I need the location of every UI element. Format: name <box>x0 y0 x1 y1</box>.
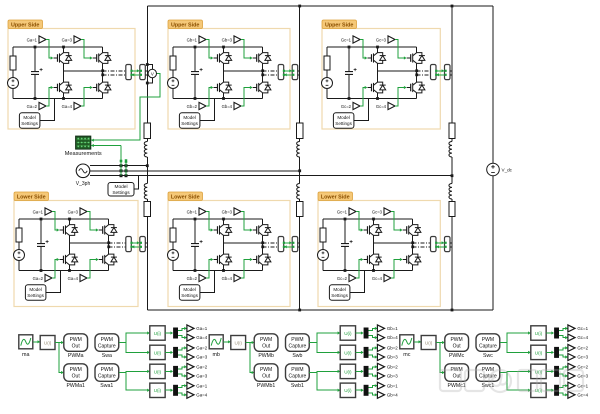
demux b3 <box>364 366 369 377</box>
svg-text:Gb=3: Gb=3 <box>222 37 233 42</box>
wire module mid rail <box>224 70 263 72</box>
transistor upper A T2 <box>54 87 58 89</box>
svg-text:Measurements: Measurements <box>65 151 102 157</box>
input port Gb=3 <box>234 208 241 215</box>
wire cap branch bottom <box>34 74 36 98</box>
svg-text:PWMa: PWMa <box>68 353 84 359</box>
wire Model Settings link <box>200 99 215 121</box>
wire cap branch top <box>348 47 350 72</box>
PWM Out block PWMa1 <box>64 364 88 382</box>
svg-text:Swb: Swb <box>292 353 302 359</box>
PWM Out block PWMb1 <box>254 364 278 382</box>
transistor lower B T1 <box>214 229 218 231</box>
Model Settings block lower B <box>179 285 200 301</box>
wire output 2 (dash-dot) <box>413 246 431 248</box>
wire V_dc bus lower segment <box>492 176 494 310</box>
output port Ga=3 <box>187 354 194 361</box>
svg-text:Upper Side: Upper Side <box>171 22 199 28</box>
svg-text:U(i): U(i) <box>344 350 352 355</box>
wire <box>12 70 14 78</box>
wire AC line phase c <box>90 175 452 177</box>
svg-text:U(i): U(i) <box>344 388 352 393</box>
input port Gb=4 <box>234 102 241 109</box>
wire output 2 (dash-dot) <box>263 74 279 76</box>
wire measurement tap 1 (green) <box>120 146 122 176</box>
wire <box>18 261 20 271</box>
wire port link 2 (green) <box>284 246 292 248</box>
transistor upper A T3 <box>93 57 97 59</box>
lookup block U[i] a0 <box>40 336 55 350</box>
wire module mid rail <box>374 242 413 244</box>
wire Model Settings link <box>200 271 215 293</box>
capacitor module upper C <box>345 72 353 75</box>
port block inner lower B <box>278 237 284 252</box>
input port Gb=1 <box>199 36 206 43</box>
svg-text:Gc=2: Gc=2 <box>341 104 352 109</box>
transistor upper C T3 <box>407 57 411 59</box>
wire port link 1 (green) <box>436 242 444 244</box>
resistor module upper A <box>10 56 16 70</box>
node bottom rail / phase c <box>451 309 454 312</box>
signal source mb <box>209 335 223 349</box>
wire output 1 (dash-dot) <box>263 242 279 244</box>
transistor lower C T2 <box>364 259 368 261</box>
svg-text:Gb=3: Gb=3 <box>387 374 398 379</box>
wire <box>356 389 364 391</box>
wire port link 1 (green) <box>284 242 292 244</box>
wire lower legs <box>69 243 71 254</box>
lookup block U[i] a4 <box>150 383 165 397</box>
wire gate 3 (green) <box>391 212 402 231</box>
wire AC line phase b <box>90 170 300 172</box>
wire gate 1 (green) <box>206 212 213 231</box>
wire leg verticals <box>63 47 65 53</box>
svg-text:Ga=1: Ga=1 <box>27 37 38 42</box>
transistor lower B T4 <box>253 259 257 261</box>
Model Settings block (global) <box>108 183 134 197</box>
wire V_dc bus upper segment <box>492 6 494 163</box>
voltage source module upper B <box>168 78 179 89</box>
wire module top rail <box>323 218 413 220</box>
transistor lower C T1 <box>364 229 368 231</box>
wire left branch <box>326 47 328 56</box>
port block inner upper A <box>126 65 132 80</box>
wire <box>356 370 364 372</box>
wire <box>356 332 364 334</box>
svg-text:Gb=3: Gb=3 <box>222 209 233 214</box>
wire leg verticals <box>373 219 375 225</box>
wire <box>322 242 324 250</box>
output port Gc=3 <box>568 354 575 361</box>
svg-text:PWMb1: PWMb1 <box>257 383 276 389</box>
svg-text:Capture: Capture <box>98 343 116 349</box>
wire capture 1 fanout <box>500 333 530 343</box>
svg-text:Ga=2: Ga=2 <box>27 104 38 109</box>
input port Gb=2 <box>199 274 206 281</box>
wire module bottom rail <box>327 98 417 100</box>
svg-text:Gc=2: Gc=2 <box>577 365 588 370</box>
transistor upper C T4 <box>407 87 411 89</box>
wire port link 1 (green) <box>131 242 139 244</box>
wire gate 1 (green) <box>360 40 367 59</box>
wire gate 4 (green) <box>241 88 252 107</box>
wire output 2 (dash-dot) <box>417 74 431 76</box>
transistor upper A T4 <box>93 87 97 89</box>
svg-text:Ga=3: Ga=3 <box>62 37 73 42</box>
demux c1 <box>554 328 559 339</box>
wire gate 3 (green) <box>241 212 252 231</box>
transistor lower A T4 <box>99 259 103 261</box>
wire phase a upper arm bus <box>146 6 148 123</box>
transistor lower A T1 <box>60 229 64 231</box>
Model Settings block upper C <box>333 113 354 129</box>
svg-text:Out: Out <box>72 373 81 379</box>
output port Gc=2 <box>568 344 575 351</box>
wire <box>299 199 301 202</box>
svg-text:Ga=1: Ga=1 <box>196 326 207 331</box>
voltage source module upper A <box>8 78 19 89</box>
wire output 2 (dash-dot) <box>263 246 279 248</box>
svg-text:Capture: Capture <box>98 373 116 379</box>
svg-text:Gc=2: Gc=2 <box>577 346 588 351</box>
wire to AC node c <box>451 157 453 184</box>
wire gate 1 (green) <box>356 212 363 231</box>
port pins (green) <box>283 242 285 244</box>
svg-text:Lower Side: Lower Side <box>17 194 46 200</box>
wire bottom DC rail <box>147 309 493 311</box>
svg-text:U(i): U(i) <box>344 331 352 336</box>
wire Model Settings link <box>134 176 139 190</box>
transistor upper B T1 <box>214 57 218 59</box>
wire module mid rail <box>378 70 417 72</box>
node bottom rail / phase b <box>298 309 301 312</box>
wire port link 2 (green) <box>131 246 139 248</box>
PWM Capture block Swc <box>476 334 500 352</box>
transistor upper B T4 <box>253 87 257 89</box>
svg-text:Lower Side: Lower Side <box>171 194 200 200</box>
input port Gb=2 <box>199 102 206 109</box>
svg-text:mc: mc <box>403 352 410 358</box>
wire left branch <box>18 219 20 228</box>
voltage source module lower C <box>318 250 329 261</box>
lookup block U[i] b0 <box>231 336 246 350</box>
lookup block U[i] b4 <box>340 383 355 397</box>
voltage source V_3ph <box>76 164 90 178</box>
PWM Capture block Swa1 <box>95 364 119 382</box>
node AC terminal phase c <box>451 174 454 177</box>
wire phase a lower arm bus <box>146 217 148 311</box>
wire port to bus stubs <box>450 242 452 244</box>
inductor upper arm phase c <box>449 142 452 158</box>
PWM Capture block Swb1 <box>286 364 310 382</box>
wire gate 3 (green) <box>81 40 92 59</box>
Model Settings block lower A <box>25 285 46 301</box>
svg-text:Swc: Swc <box>483 353 493 359</box>
wire gate 2 (green) <box>360 88 367 107</box>
output port Gc=3 <box>568 372 575 379</box>
wire output 2 (dash-dot) <box>109 246 126 248</box>
wire demux out 2 <box>559 355 567 357</box>
svg-text:ma: ma <box>22 352 30 358</box>
lookup block U[i] c2 <box>531 345 546 359</box>
wire module top rail <box>13 46 103 48</box>
lookup block U[i] b1 <box>340 326 355 340</box>
output port Gc=2 <box>568 363 575 370</box>
wire measurement tap 2 (green) <box>125 162 127 176</box>
resistor module lower C <box>320 228 326 242</box>
svg-text:Upper Side: Upper Side <box>11 22 39 28</box>
wire AC line phase a <box>90 165 147 167</box>
wire <box>165 370 172 372</box>
wire Model Settings link <box>46 271 61 293</box>
wire lower legs <box>373 243 375 254</box>
wire <box>451 199 453 202</box>
transistor lower B T2 <box>214 259 218 261</box>
svg-text:Ga=4: Ga=4 <box>196 393 207 398</box>
output port Gc=4 <box>568 391 575 398</box>
lookup block U[i] c1 <box>531 326 546 340</box>
svg-text:PWM: PWM <box>450 337 462 343</box>
output port Gb=3 <box>377 372 384 379</box>
wire gate 4 (green) <box>391 260 402 279</box>
wire gate 2 (green) <box>46 88 53 107</box>
wire Model Settings link <box>40 99 55 121</box>
lookup block U[i] c4 <box>531 383 546 397</box>
svg-text:Ga=3: Ga=3 <box>196 374 207 379</box>
wire left branch <box>12 47 14 56</box>
svg-text:Gc=4: Gc=4 <box>577 335 588 340</box>
wire module top rail <box>173 46 263 48</box>
svg-text:Out: Out <box>262 373 271 379</box>
wire demux out 1 <box>369 348 377 350</box>
svg-text:Ga=2: Ga=2 <box>196 365 207 370</box>
wire module mid rail <box>224 242 263 244</box>
input port Ga=4 <box>74 102 81 109</box>
wire port to bus stubs <box>298 70 300 72</box>
wire gate 1 (green) <box>52 212 59 231</box>
output port Ga=1 <box>187 325 194 332</box>
svg-text:Capture: Capture <box>289 343 307 349</box>
demux a1 <box>173 328 178 339</box>
svg-text:Swb1: Swb1 <box>291 383 304 389</box>
wire gate 4 (green) <box>87 260 98 279</box>
transistor lower A T3 <box>99 229 103 231</box>
svg-text:Gb=1: Gb=1 <box>187 37 198 42</box>
wire <box>546 332 553 334</box>
wire <box>326 70 328 78</box>
wire output 1 (dash-dot) <box>263 70 279 72</box>
svg-text:Gb=1: Gb=1 <box>187 209 198 214</box>
wire top DC rail <box>147 5 493 7</box>
transistor lower C T3 <box>403 229 407 231</box>
demux c4 <box>554 385 559 396</box>
input port Ga=2 <box>39 102 46 109</box>
wire port link 2 (green) <box>284 74 292 76</box>
output port Gb=2 <box>377 363 384 370</box>
wire cap branch top <box>194 219 196 244</box>
resistor lower arm phase c <box>449 202 455 217</box>
wire gate 3 (green) <box>395 40 406 59</box>
wire <box>172 242 174 250</box>
wire gate 2 (green) <box>206 260 213 279</box>
wire port link 2 (green) <box>436 74 444 76</box>
wire <box>172 89 174 99</box>
wire module mid rail <box>64 70 103 72</box>
wire <box>12 89 14 99</box>
wire phase b lower arm bus <box>299 217 301 311</box>
wire demux out 1 <box>178 367 186 369</box>
wire demux out 2 <box>178 336 186 338</box>
svg-text:U(i): U(i) <box>344 369 352 374</box>
svg-text:PWM: PWM <box>101 367 113 373</box>
wire <box>356 351 364 353</box>
inductor upper arm phase b <box>297 142 300 158</box>
svg-text:PWM: PWM <box>70 367 82 373</box>
transistor upper A T1 <box>54 57 58 59</box>
voltage source V_dc <box>487 163 500 176</box>
port pins (green) <box>435 242 437 244</box>
input port Gc=2 <box>349 274 356 281</box>
wire cap branch top <box>194 47 196 72</box>
wire <box>165 332 172 334</box>
wire lower legs <box>223 243 225 254</box>
output port Gc=1 <box>568 325 575 332</box>
transistor lower B T3 <box>253 229 257 231</box>
wire demux out 2 <box>369 393 377 395</box>
wire gate 4 (green) <box>241 260 252 279</box>
PWM Capture block Swb <box>286 334 310 352</box>
Measurements block <box>76 136 91 149</box>
PWM Capture block Swc1 <box>476 364 500 382</box>
resistor upper arm phase b <box>297 123 303 139</box>
svg-text:Gb=2: Gb=2 <box>187 276 198 281</box>
svg-text:Ga=4: Ga=4 <box>68 276 79 281</box>
demux b2 <box>364 347 369 358</box>
svg-text:PWMa1: PWMa1 <box>66 383 85 389</box>
wire module bottom rail <box>173 98 263 100</box>
wire phase c lower arm bus <box>451 217 453 311</box>
svg-text:U(i): U(i) <box>44 341 52 346</box>
wire cap branch top <box>344 219 346 244</box>
output port Ga=4 <box>187 391 194 398</box>
transistor upper B T2 <box>214 87 218 89</box>
demux a3 <box>173 366 178 377</box>
output port Ga=1 <box>187 382 194 389</box>
resistor lower arm phase a <box>144 202 150 217</box>
resistor upper arm phase c <box>449 123 455 139</box>
svg-text:Gb=3: Gb=3 <box>387 355 398 360</box>
svg-text:Gc=3: Gc=3 <box>372 209 383 214</box>
svg-text:Settings: Settings <box>181 293 198 298</box>
wire demux out 2 <box>369 336 377 338</box>
wire to AC node a <box>146 157 148 184</box>
svg-text:Model: Model <box>337 115 350 120</box>
wire cap branch bottom <box>194 246 196 270</box>
lookup block U[i] b2 <box>340 345 355 359</box>
wire lower legs <box>223 71 225 82</box>
wire port to bus stubs <box>450 70 452 72</box>
node top rail / phase c <box>451 5 454 8</box>
wire <box>165 389 172 391</box>
svg-text:Capture: Capture <box>289 373 307 379</box>
svg-text:U(i): U(i) <box>154 388 162 393</box>
wire demux out 1 <box>559 348 567 350</box>
subsystem frame lower B <box>168 201 290 307</box>
svg-text:PWM: PWM <box>291 337 303 343</box>
lookup block U[i] c3 <box>531 364 546 378</box>
port pins (green) <box>283 70 285 72</box>
inductor lower arm phase b <box>297 184 300 200</box>
lookup block U[i] a3 <box>150 364 165 378</box>
output port Ga=3 <box>187 372 194 379</box>
svg-text:Ga=1: Ga=1 <box>33 209 44 214</box>
input port Gb=4 <box>234 274 241 281</box>
svg-text:Gc=3: Gc=3 <box>577 355 588 360</box>
resistor module lower A <box>16 228 22 242</box>
svg-text:Gc=1: Gc=1 <box>337 209 348 214</box>
svg-text:U(i): U(i) <box>154 350 162 355</box>
subsystem frame lower A <box>14 201 138 307</box>
svg-text:U(i): U(i) <box>425 341 433 346</box>
inductor lower arm phase c <box>449 184 452 200</box>
port block outer lower C <box>445 237 451 252</box>
input port Ga=3 <box>80 208 87 215</box>
voltage source module lower A <box>14 250 25 261</box>
port block inner lower A <box>126 237 132 252</box>
wire module bottom rail <box>13 98 103 100</box>
port block outer lower B <box>292 237 298 252</box>
port pins (green) <box>130 70 132 72</box>
wire demux out 1 <box>178 328 186 330</box>
wire demux out 1 <box>559 386 567 388</box>
port block outer upper C <box>445 65 451 80</box>
wire demux out 1 <box>178 348 186 350</box>
input port Gb=1 <box>199 208 206 215</box>
resistor module upper B <box>170 56 176 70</box>
wire port link 2 (green) <box>436 246 444 248</box>
wire demux out 2 <box>178 355 186 357</box>
svg-text:Gb=1: Gb=1 <box>387 326 398 331</box>
wire module mid rail <box>70 242 109 244</box>
wire gate 4 (green) <box>81 88 92 107</box>
capacitor module lower A <box>37 244 45 247</box>
input port Ga=3 <box>74 36 81 43</box>
svg-text:V_dc: V_dc <box>502 167 513 172</box>
demux a2 <box>173 347 178 358</box>
signal source mc <box>400 335 414 349</box>
wire output 1 (dash-dot) <box>109 242 126 244</box>
wire demux out 1 <box>369 328 377 330</box>
wire gate 2 (green) <box>52 260 59 279</box>
inductor lower arm phase a <box>144 184 147 200</box>
svg-text:Gb=4: Gb=4 <box>222 104 233 109</box>
wire output 1 (dash-dot) <box>413 242 431 244</box>
output port Ga=2 <box>187 363 194 370</box>
svg-text:Model: Model <box>183 287 196 292</box>
wire port link 1 (green) <box>436 70 444 72</box>
demux c2 <box>554 347 559 358</box>
node AC terminal phase b <box>298 169 301 172</box>
svg-text:Model: Model <box>114 184 127 190</box>
input port Ga=4 <box>80 274 87 281</box>
wire lower legs <box>63 71 65 82</box>
svg-text:PWM: PWM <box>260 337 272 343</box>
svg-text:mb: mb <box>212 352 220 358</box>
output port Gb=4 <box>377 391 384 398</box>
svg-text:U(i): U(i) <box>154 331 162 336</box>
wire Model Settings link <box>354 99 369 121</box>
output port Gc=4 <box>568 334 575 341</box>
